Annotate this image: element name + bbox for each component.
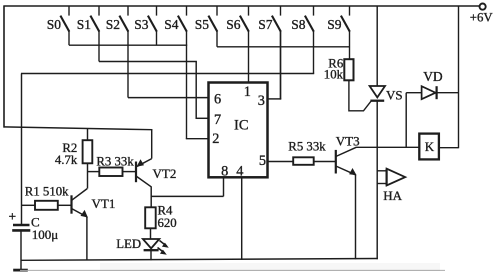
svg-text:VT2: VT2 <box>153 166 177 181</box>
wire node down to R4 <box>150 196 152 207</box>
svg-text:S1: S1 <box>77 17 91 32</box>
ground bus <box>21 259 378 261</box>
svg-text:VS: VS <box>386 87 403 102</box>
ground bar <box>13 269 28 272</box>
svg-text:S0: S0 <box>47 17 62 32</box>
svg-text:6: 6 <box>214 91 221 107</box>
wire bus left border to VT2 emitter (y127-130) <box>4 127 153 130</box>
svg-text:8: 8 <box>221 164 228 180</box>
svg-text:S9: S9 <box>327 17 342 32</box>
wire VD left down to K wire <box>405 93 407 148</box>
wire R1 to VT1 base <box>58 204 72 206</box>
diode VD <box>406 86 458 99</box>
wire bus S8 to left corner (y73.5) <box>21 73 314 75</box>
svg-text:10k: 10k <box>324 67 344 81</box>
buzzer HA <box>377 169 405 186</box>
resistor R4 <box>145 207 156 228</box>
relay K box <box>419 134 439 160</box>
svg-text:S8: S8 <box>291 17 306 32</box>
svg-text:S4: S4 <box>164 17 179 32</box>
bottom page-edge faint line <box>20 269 445 271</box>
wire pin7 entry <box>196 117 208 119</box>
svg-text:S7: S7 <box>258 17 273 32</box>
resistor R3 <box>99 168 122 177</box>
wire R5 to VT3 base <box>314 161 335 163</box>
wire pin4 to ground bus <box>241 177 243 259</box>
right rail from +6V to relay K <box>458 6 460 149</box>
svg-text:7: 7 <box>214 112 221 128</box>
svg-text:HA: HA <box>383 188 402 203</box>
switch S4 <box>164 6 187 139</box>
wire bus S1 to pin7 feed (y61.5) <box>99 61 197 63</box>
svg-text:3: 3 <box>258 93 265 109</box>
switch S7 <box>258 6 281 99</box>
svg-text:VT3: VT3 <box>336 134 360 149</box>
svg-text:R5 33k: R5 33k <box>288 140 326 154</box>
svg-text:K: K <box>425 139 435 154</box>
wire VT1 emitter down to ground bus <box>86 217 88 261</box>
wire pin3 entry <box>268 98 282 100</box>
resistor R6 <box>344 59 353 80</box>
svg-text:VT1: VT1 <box>92 196 116 211</box>
svg-text:620: 620 <box>158 216 177 230</box>
wire R3 right to VT2 base <box>123 171 136 173</box>
wire R2 bottom to VT1 collector node <box>87 163 89 188</box>
wire pin5 to R5 <box>268 161 294 163</box>
svg-text:R3 33k: R3 33k <box>96 155 134 169</box>
svg-text:100μ: 100μ <box>32 227 59 242</box>
wire VT3 emitter to ground bus <box>355 175 357 260</box>
wire R6 bottom to VS gate <box>349 80 371 111</box>
wire K right to rail <box>439 147 459 149</box>
svg-text:S6: S6 <box>226 17 241 32</box>
switch S1 <box>77 6 100 62</box>
wire pin3 riser from S7 <box>280 31 282 99</box>
svg-text:+: + <box>9 209 17 224</box>
wire pin2 entry <box>186 138 209 140</box>
wire LED to ground bus <box>150 250 152 260</box>
wire VT3 collector to relay K <box>356 146 420 148</box>
transistor VT2 <box>136 159 152 187</box>
svg-text:VD: VD <box>423 69 443 84</box>
switch S5 <box>195 6 218 47</box>
svg-text:S3: S3 <box>134 17 149 32</box>
svg-text:LED: LED <box>116 237 141 251</box>
resistor R2 <box>83 140 93 163</box>
wire bus S5/S9 (y46.8) <box>217 46 350 48</box>
switch S0 <box>47 6 70 45</box>
wire R4 to LED <box>150 228 152 239</box>
+6V terminal <box>480 4 486 10</box>
op-amp IC U1 box <box>209 83 268 178</box>
left border wire <box>3 6 5 128</box>
svg-text:5: 5 <box>259 153 266 169</box>
svg-text:IC: IC <box>234 118 249 134</box>
svg-text:4: 4 <box>236 164 243 180</box>
transistor VT3 <box>336 147 357 175</box>
wire R2 top to bus <box>87 128 89 140</box>
wire S2 bus to IC pin6 (y97.6) <box>128 97 209 99</box>
switch S9 <box>327 6 350 59</box>
wire VT2 collector down <box>150 186 152 196</box>
svg-text:R1 510k: R1 510k <box>25 185 69 199</box>
wire C bottom to ground bar <box>20 230 22 270</box>
wire pin8 riser <box>223 177 225 196</box>
wire VS cathode down to ground bus corner <box>376 101 378 260</box>
switch S3 <box>134 6 157 45</box>
svg-text:4.7k: 4.7k <box>55 153 78 167</box>
svg-text:+6V: +6V <box>470 11 494 25</box>
capacitor C top plate <box>13 224 30 227</box>
LED <box>143 239 169 255</box>
resistor R5 <box>293 157 314 165</box>
wire R3 left junction <box>88 171 100 173</box>
switch S6 <box>226 6 249 83</box>
switch S8 <box>291 6 314 74</box>
svg-text:2: 2 <box>212 131 219 147</box>
thyristor VS <box>370 86 385 101</box>
capacitor C bottom plate <box>12 229 30 232</box>
wire VT2 emitter riser <box>151 130 153 159</box>
svg-text:S5: S5 <box>195 17 210 32</box>
+6V supply rail (top) <box>4 5 480 7</box>
switch S2 <box>106 6 129 98</box>
svg-text:S2: S2 <box>106 17 120 32</box>
wire C/R1 node <box>22 204 36 206</box>
wire left column x21 (S8 bus down to R1/C node) <box>21 74 23 226</box>
wire VS anode from rail <box>376 6 378 86</box>
svg-text:1: 1 <box>244 84 251 100</box>
wire pin7 feed vertical x196 <box>195 62 197 120</box>
transistor VT1 <box>72 189 88 218</box>
wire bus S0/S3 to S4 column (y45.2) <box>69 44 187 46</box>
bottom scan shadow <box>100 263 440 271</box>
resistor R1 <box>35 201 58 210</box>
wire node to IC pin8 (y196.4) <box>151 195 223 197</box>
